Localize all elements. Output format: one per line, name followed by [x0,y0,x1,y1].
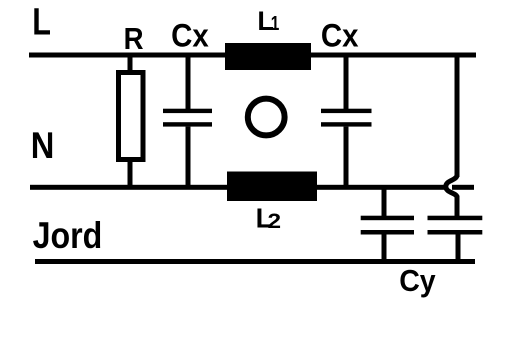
resistor R label [124,21,144,56]
node Jord label [33,216,103,257]
resistor R [119,55,144,188]
capacitor Cx1 label [171,17,209,53]
svg-text:L: L [32,1,51,43]
capacitor Cx2 label [321,17,359,53]
inductor L2 label [256,202,281,233]
svg-text:2: 2 [268,209,282,233]
svg-text:N: N [31,125,55,166]
svg-text:Cy: Cy [399,264,436,298]
capacitor Cy label [399,264,436,298]
inductor L1 (black bar) [225,43,311,70]
wire line L (top phase wire) [29,53,476,58]
inductor L1 label [257,6,279,36]
wire from hop down to Cy2 [455,196,460,218]
wire line N left segment [30,185,446,190]
node L label [32,1,51,43]
capacitor Cy1 [361,189,414,262]
svg-text:Jord: Jord [33,216,103,257]
capacitor Cy2 [428,216,483,262]
wire line N right segment [452,185,474,190]
capacitor Cx2 [321,55,372,188]
wire hop over N [446,175,457,198]
svg-text:1: 1 [271,12,280,35]
svg-text:Cx: Cx [321,17,359,53]
capacitor Cx1 [163,55,212,188]
svg-text:Cx: Cx [171,17,209,53]
core circle (common-mode choke core) [248,99,285,136]
node N label [31,125,55,166]
wire line Jord (ground wire) [35,259,475,264]
inductor L2 (black bar) [227,172,317,202]
wire right vertical drop from L [455,55,460,177]
svg-text:R: R [124,21,144,56]
